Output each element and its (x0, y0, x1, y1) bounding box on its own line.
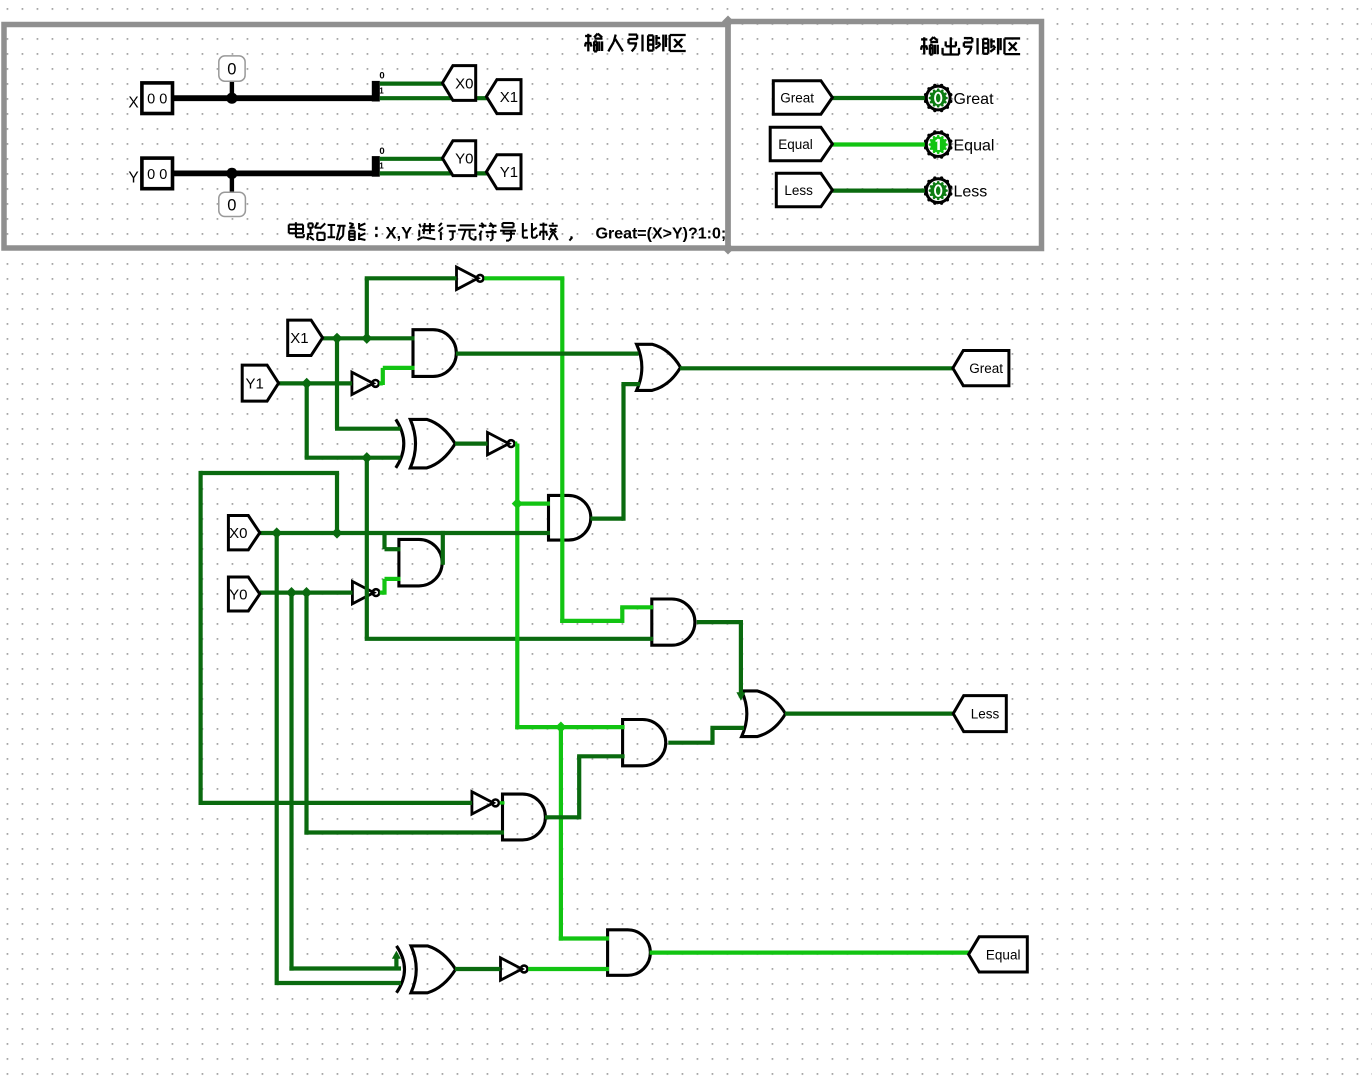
svg-text:0: 0 (227, 60, 236, 78)
inverter U3b (NOT of XOR X1Y1) (488, 432, 509, 454)
tag X1 (486, 80, 521, 114)
svg-text:X1: X1 (290, 330, 308, 347)
svg-text:Equal: Equal (954, 137, 995, 154)
caption: circuit function (Chinese + formula) (289, 222, 304, 237)
wire: inverter U1 output (484, 276, 564, 280)
tag Equal (output area) (770, 127, 832, 161)
junction: Y1 wire branch (301, 378, 312, 389)
OR gate U9 (Less output) (742, 691, 786, 737)
wire: Great to indicator (830, 96, 927, 100)
svg-text:0 0: 0 0 (147, 92, 167, 108)
junction: X1 wire branch 1 (331, 333, 342, 344)
tag Equal schematic (969, 937, 1028, 972)
wire: OR U4 output to Great tag (680, 366, 954, 370)
wire: X0 step down to AND U6 top input (382, 533, 386, 549)
wire: X0 to XOR U11 bottom input (277, 981, 401, 985)
svg-text:Less: Less (954, 183, 988, 200)
AND gate U2 (X1 AND NOT Y1) (413, 330, 456, 377)
wire: X bus (173, 95, 374, 101)
tag Y1 (schematic) (242, 365, 278, 401)
wire: Y1 to XOR U3 bottom input (305, 456, 401, 460)
wire: inverter U4b output jog to AND U6 bottom input (380, 590, 385, 594)
svg-text:Equal: Equal (778, 137, 813, 152)
wire: X0 branch down (left rail) (275, 533, 279, 985)
wire: X1 tag to AND U2 top input (323, 336, 415, 340)
wire: U1 net vertical down (560, 278, 564, 623)
tag Y0 (schematic) (228, 577, 259, 611)
wire: Y1 branch to AND U7 bottom input (365, 458, 369, 639)
wire: U1 net to AND U7 top input jog (560, 619, 622, 623)
svg-text:X0: X0 (455, 75, 473, 92)
tag Y1 (486, 155, 521, 189)
svg-text:Great: Great (780, 90, 814, 105)
bus splitter X (372, 81, 380, 102)
wire: Less to indicator (830, 189, 927, 193)
AND gate U12 (Equal output) (608, 930, 651, 976)
svg-text:X: X (128, 95, 139, 112)
panel border handle bottom (722, 243, 734, 255)
wire: Y1 tag to inverter U2b (279, 381, 352, 385)
wire: branch to AND U5 top input (517, 502, 550, 506)
wire: XOR U11 pin arrow (394, 957, 398, 969)
inverter U4b (NOT Y0) (352, 581, 373, 603)
wire: X0 tag to AND U5 bottom input (260, 531, 550, 535)
wire: OR U9 output to Less tag (785, 711, 954, 715)
wire: branch down to AND U12 top input (559, 727, 563, 941)
panel border handle top (722, 16, 734, 28)
inverter U5b (NOT on X0 path) (472, 792, 493, 814)
junction: U3b net to U5 (512, 498, 523, 509)
wire: Y0 branch down to AND U10 bottom input (304, 593, 308, 835)
svg-text:X1: X1 (500, 89, 518, 106)
wire: left rail down (199, 471, 203, 805)
wire: AND U2 output to OR U4 top input (456, 352, 639, 356)
wire: rail to inverter U5b input (199, 801, 472, 805)
tag X1 (schematic) (288, 320, 323, 355)
svg-text:Y1: Y1 (500, 164, 518, 181)
stub to value box (230, 173, 234, 192)
AND gate U6 (X0 AND NOT Y0) (399, 539, 442, 586)
wire: Equal to indicator (830, 142, 927, 146)
value box 0 (X) (219, 56, 245, 81)
svg-text:Y0: Y0 (455, 151, 473, 168)
wire: Y0 from splitter (380, 157, 444, 161)
svg-text:X0: X0 (229, 525, 247, 542)
svg-text:Y: Y (128, 170, 138, 187)
svg-text:1: 1 (379, 162, 384, 171)
tag X0 (442, 66, 475, 101)
wire: AND U5 output to OR U4 bottom input (591, 516, 624, 520)
wire: Y0 branch down to XOR U11 top input (289, 593, 293, 971)
svg-text:Equal: Equal (986, 947, 1021, 962)
switch box X value 0 0 (142, 83, 173, 114)
junction: X0 wire branch 1 (271, 527, 282, 538)
stub to value box (230, 81, 234, 98)
switch box Y value 0 0 (142, 158, 173, 189)
junction: X0 wire branch 2 (331, 527, 342, 538)
bus splitter Y (372, 156, 380, 177)
svg-text:Y1: Y1 (245, 376, 263, 393)
OR gate U4 (Great output) (637, 344, 681, 390)
AND gate U8 (623, 720, 666, 766)
svg-text:Great: Great (954, 91, 995, 108)
svg-text:0: 0 (227, 196, 236, 214)
wire: AND U6 output riser (441, 531, 445, 565)
wire: XOR U3 output to inverter U3b (455, 442, 488, 446)
svg-text:Great=(X>Y)?1:0;: Great=(X>Y)?1:0; (596, 226, 727, 243)
inverter U1 (NOT on X1 path) (457, 267, 478, 289)
title: output pin area (Chinese) (921, 37, 938, 54)
svg-text:0: 0 (379, 146, 384, 157)
OR U9 pin arrow (736, 692, 745, 701)
wire: Y bus (173, 170, 374, 176)
wire: U3b net vertical down (515, 444, 519, 730)
LED indicator Less = 0 (924, 176, 953, 205)
wire: Y1 from splitter (380, 171, 488, 175)
XOR gate U11 (X0 xor Y0) (397, 946, 405, 993)
AND gate U5 (549, 495, 591, 540)
junction: X1 wire branch 2 (361, 333, 372, 344)
svg-text:0 0: 0 0 (147, 167, 167, 183)
wire: X0 from splitter (380, 81, 444, 85)
wire: X1 from splitter (380, 96, 488, 100)
wire: inverter U6b output to AND U12 bottom input (528, 967, 609, 971)
wire: AND U12 output to Equal tag (650, 950, 970, 954)
wire: Y0 tag to inverter U4b (260, 590, 353, 594)
inverter U2b (NOT Y1) (352, 372, 373, 394)
junction: Y1 branch to U7 (361, 452, 372, 463)
svg-text:X,Y: X,Y (386, 225, 413, 243)
title: input pin area (Chinese) (585, 34, 602, 52)
LED indicator Great = 0 (924, 84, 953, 113)
value box 0 (Y) (219, 192, 246, 216)
wire: AND U10 output to AND U8 bottom input (545, 815, 579, 819)
junction: U3b net to U12 (555, 722, 566, 733)
tag Y0 (442, 141, 475, 176)
svg-text:0: 0 (379, 71, 384, 82)
junction on X bus (226, 93, 237, 104)
wire: inverter U2b output jog to AND U2 bottom input (379, 381, 383, 385)
AND gate U7 (652, 599, 695, 645)
wire: inverter U3b output (515, 442, 517, 446)
tag Great (output area) (773, 81, 832, 115)
tag Less schematic (953, 696, 1006, 732)
wire: Y1 branch down (305, 383, 309, 457)
wire: X1 branch up to inverter U1 (365, 278, 369, 340)
tag X0 (schematic) (228, 516, 259, 550)
junction on Y bus (226, 168, 237, 179)
wire: XOR U11 output to inverter U6b (455, 967, 501, 971)
junction: Y0 wire branch 2 (301, 587, 312, 598)
LED indicator Equal = 1 (924, 130, 953, 159)
input pin area panel (4, 25, 728, 249)
svg-text:Great: Great (969, 361, 1003, 376)
svg-text:Less: Less (784, 183, 813, 198)
wire: AND U7 output to OR U9 top input (697, 620, 741, 624)
wire: AND U8 output to OR U9 bottom input (668, 741, 712, 745)
AND gate U10 (503, 794, 546, 840)
output pin area panel (728, 22, 1042, 249)
tag Less (output area) (776, 173, 832, 207)
svg-text:Y0: Y0 (229, 586, 247, 603)
wire: X1 branch down to XOR U3 (335, 338, 339, 428)
svg-text:1: 1 (379, 87, 384, 96)
XOR gate U3 (X1 xor Y1) (396, 419, 404, 468)
wire: U3b net to AND U8 top input (515, 725, 624, 729)
tag Great schematic (953, 351, 1009, 386)
wire: inverter U5b output nub (500, 801, 505, 804)
junction: Y0 wire branch 1 (286, 587, 297, 598)
inverter U6b (NOT of XOR X0Y0) (501, 958, 522, 980)
svg-text:Less: Less (971, 706, 1000, 721)
wire: X0 branch up-left to NAND rail (335, 473, 339, 535)
